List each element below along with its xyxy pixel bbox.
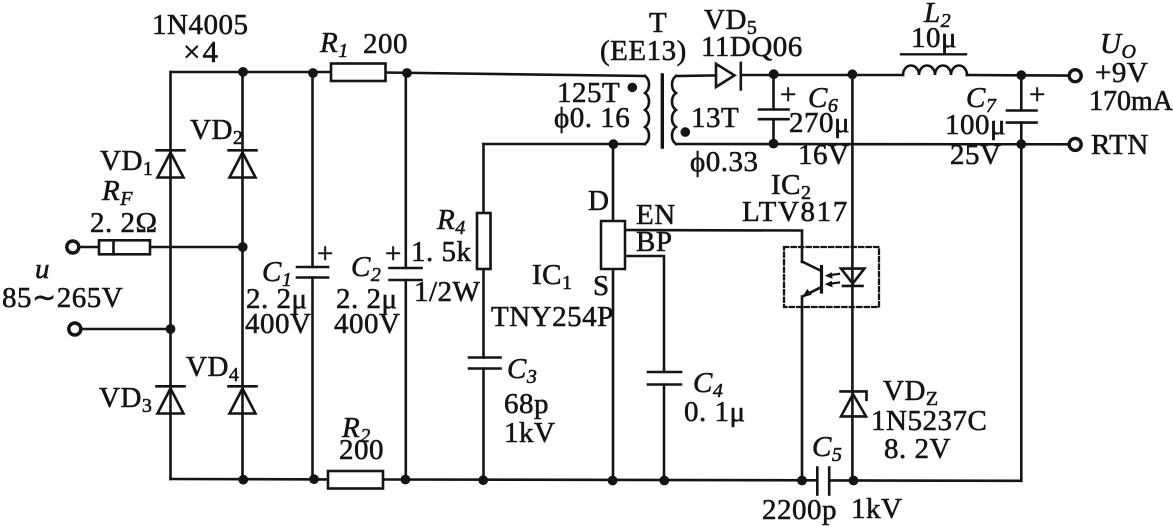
capacitor C4 plates bbox=[648, 372, 681, 385]
svg-text:8. 2V: 8. 2V bbox=[884, 433, 951, 465]
wire BP to C4 bbox=[625, 256, 664, 372]
diode VD2 bbox=[229, 150, 257, 177]
transformer primary phasing dot bbox=[628, 83, 638, 93]
wire opto emitter to ground bbox=[801, 297, 804, 481]
inductor L2 bbox=[903, 66, 967, 76]
wire feedback LED column bbox=[851, 74, 854, 480]
wire IC1 source to ground bbox=[612, 269, 615, 481]
svg-text:400V: 400V bbox=[334, 308, 400, 340]
svg-text:2200p: 2200p bbox=[762, 494, 837, 526]
svg-text:170mA: 170mA bbox=[1089, 86, 1173, 117]
wire IC1 drain bbox=[612, 144, 615, 221]
wire secondary top to VD5 bbox=[676, 74, 716, 77]
svg-text:+: + bbox=[385, 238, 402, 270]
node C6 top bbox=[769, 69, 779, 79]
wire R4 bottom to C3 bbox=[482, 269, 485, 358]
wire RF to bridge bbox=[150, 246, 243, 249]
output terminal RTN bbox=[1069, 138, 1081, 150]
svg-text:u: u bbox=[35, 253, 50, 285]
svg-text:RTN: RTN bbox=[1091, 129, 1149, 161]
svg-text:ϕ0.33: ϕ0.33 bbox=[690, 146, 759, 178]
wire C6 column bbox=[772, 74, 775, 109]
wire top rail right of R1 to transformer primary top bbox=[385, 73, 645, 77]
node C4 bottom bbox=[659, 476, 669, 486]
wire VD2-VD4 column bbox=[241, 72, 244, 480]
resistor R4 bbox=[477, 213, 491, 269]
svg-text:1kV: 1kV bbox=[851, 493, 902, 525]
node AC neutral bbox=[166, 324, 176, 334]
node C1 bottom bbox=[309, 474, 319, 484]
optocoupler IC2 dashed box bbox=[784, 247, 879, 307]
node VD4 bottom bbox=[238, 475, 248, 485]
input terminal neutral bbox=[69, 323, 81, 335]
svg-text:ϕ0. 16: ϕ0. 16 bbox=[554, 102, 630, 134]
node AC live bbox=[238, 242, 248, 252]
node D junction bbox=[609, 139, 619, 149]
capacitor C2 plates bbox=[390, 268, 422, 280]
wire R4 top to D-node bbox=[482, 144, 485, 213]
svg-text:400V: 400V bbox=[245, 308, 311, 340]
svg-text:1/2W: 1/2W bbox=[414, 276, 481, 308]
diode VD3 bbox=[157, 386, 185, 413]
wire C2 column bbox=[404, 73, 407, 268]
svg-text:TNY254P: TNY254P bbox=[491, 301, 614, 333]
svg-text:68p: 68p bbox=[504, 388, 549, 420]
node VD2 top bbox=[238, 67, 248, 77]
wire C4 to ground bbox=[663, 385, 666, 481]
capacitor C5 plates bbox=[817, 468, 829, 495]
svg-text:100μ: 100μ bbox=[945, 109, 1006, 141]
transformer secondary phasing dot bbox=[681, 127, 691, 137]
node C2 top bbox=[402, 68, 412, 78]
wire C1 column bbox=[311, 73, 314, 268]
node VDz ground bbox=[849, 476, 859, 486]
node C2 bottom bbox=[401, 475, 411, 485]
node S bottom bbox=[608, 476, 618, 486]
capacitor C3 plates bbox=[469, 358, 501, 369]
wire VD5 cathode to L2 bbox=[741, 74, 903, 77]
node RTN junction bbox=[1016, 139, 1026, 149]
wire secondary bottom RTN rail bbox=[676, 143, 1070, 146]
zener diode VDz bbox=[841, 391, 867, 416]
resistor R2 bbox=[328, 471, 383, 489]
svg-text:85∼265V: 85∼265V bbox=[2, 282, 123, 314]
wire top rail left segment bbox=[171, 71, 331, 74]
diode VD1 bbox=[157, 150, 185, 177]
svg-text:S: S bbox=[593, 270, 610, 302]
svg-text:BP: BP bbox=[636, 226, 672, 258]
resistor R1 bbox=[331, 64, 386, 82]
wire EN to optocoupler bbox=[625, 230, 802, 262]
opto phototransistor bbox=[802, 262, 822, 298]
svg-text:16V: 16V bbox=[798, 139, 849, 171]
transformer T primary winding bbox=[645, 76, 649, 144]
svg-text:1kV: 1kV bbox=[504, 417, 555, 449]
svg-text:×4: ×4 bbox=[183, 34, 220, 69]
fusible resistor RF bbox=[99, 240, 150, 254]
input terminal live bbox=[67, 241, 79, 253]
svg-text:200: 200 bbox=[363, 28, 408, 60]
opto LED bbox=[841, 269, 864, 286]
node C3 bottom bbox=[478, 475, 488, 485]
svg-text:10μ: 10μ bbox=[911, 22, 957, 54]
IC1 TNY254P body bbox=[601, 221, 625, 269]
output terminal +9V bbox=[1069, 70, 1081, 82]
node C1 top bbox=[308, 68, 318, 78]
svg-text:+9V: +9V bbox=[1095, 57, 1148, 89]
wire input live from terminal to RF bbox=[78, 246, 99, 249]
wire C7 and RTN right column bbox=[1020, 75, 1023, 110]
wire C3 to ground rail bbox=[482, 369, 485, 481]
wire VD1-VD3 column bbox=[169, 72, 172, 479]
node C6 bottom bbox=[769, 139, 779, 149]
svg-text:270μ: 270μ bbox=[789, 107, 850, 139]
wire bottom rail mid bbox=[383, 478, 817, 481]
transformer T secondary winding bbox=[672, 76, 676, 144]
node emitter ground bbox=[797, 476, 807, 486]
capacitor C7 plates bbox=[1007, 111, 1037, 123]
transformer core bbox=[661, 75, 664, 147]
wire bottom rail left bbox=[171, 478, 329, 481]
capacitor C1 plates bbox=[297, 267, 328, 278]
svg-text:200: 200 bbox=[339, 434, 384, 466]
svg-text:0. 1μ: 0. 1μ bbox=[684, 396, 746, 428]
node feedback tap bbox=[848, 69, 858, 79]
wire L2 to +9V terminal bbox=[967, 74, 1070, 77]
svg-text:1. 5k: 1. 5k bbox=[411, 236, 472, 268]
capacitor C6 plates bbox=[759, 110, 789, 120]
L2 label underline bbox=[901, 53, 966, 55]
diode VD5 bbox=[716, 63, 741, 90]
wire bottom rail right of C5 bbox=[830, 479, 1022, 482]
svg-text:11DQ06: 11DQ06 bbox=[701, 31, 803, 63]
diode VD4 bbox=[229, 386, 257, 413]
wire D-node horizontal bbox=[484, 143, 646, 146]
svg-text:LTV817: LTV817 bbox=[742, 196, 849, 228]
svg-text:+: + bbox=[317, 238, 334, 270]
svg-text:(EE13): (EE13) bbox=[600, 35, 687, 67]
wire input neutral bbox=[80, 328, 171, 331]
svg-text:13T: 13T bbox=[691, 102, 739, 134]
svg-text:+: + bbox=[1029, 79, 1046, 111]
svg-text:D: D bbox=[588, 185, 609, 217]
svg-text:2. 2Ω: 2. 2Ω bbox=[90, 207, 158, 239]
opto light arrows bbox=[825, 272, 839, 287]
node C7 top bbox=[1016, 70, 1026, 80]
svg-text:25V: 25V bbox=[950, 139, 1001, 171]
